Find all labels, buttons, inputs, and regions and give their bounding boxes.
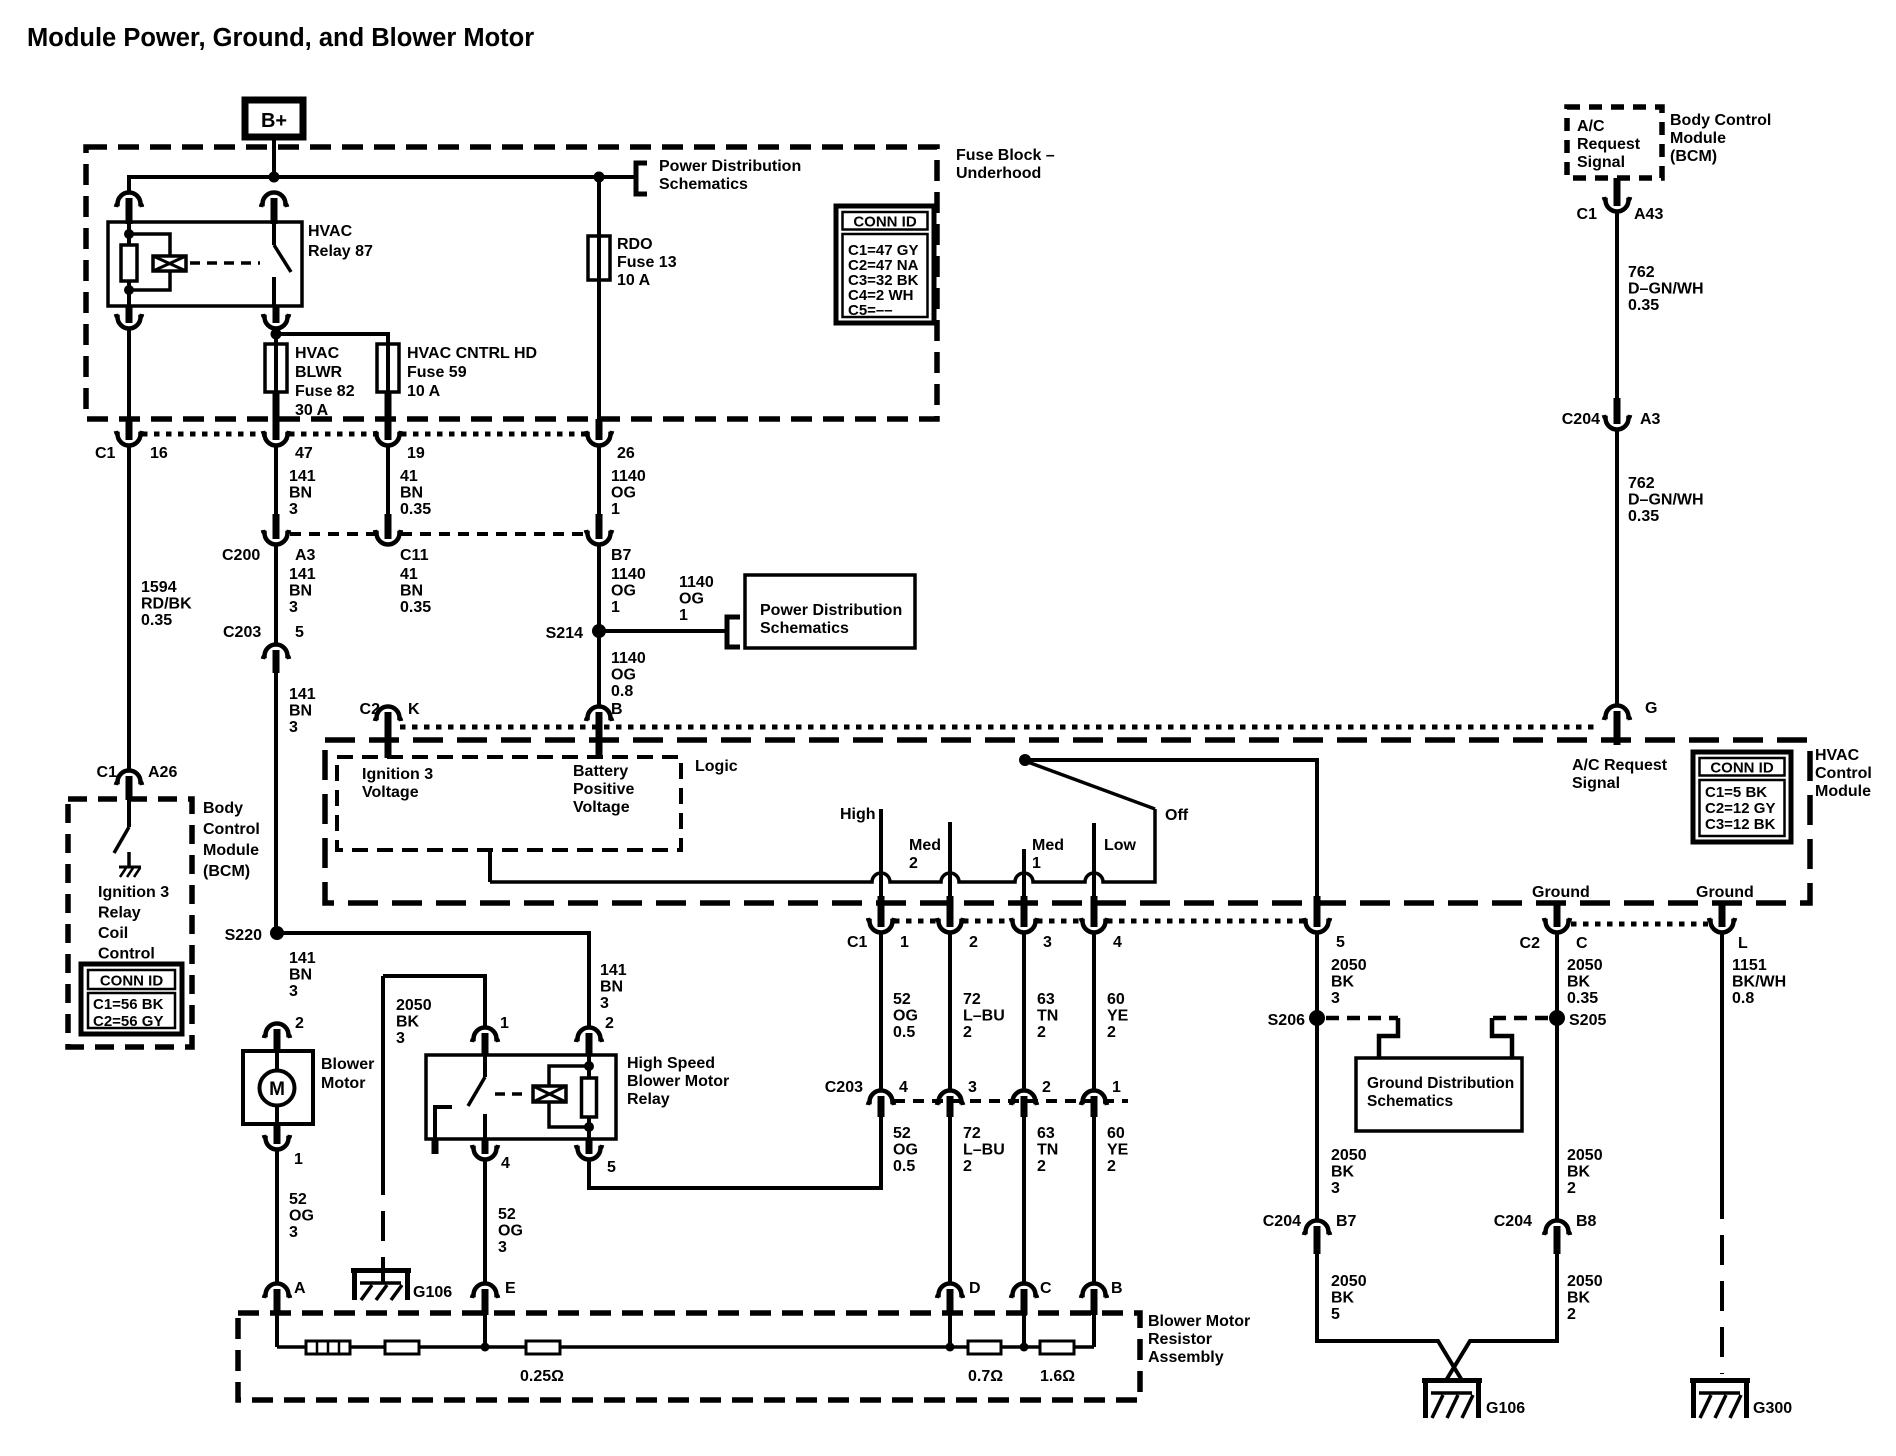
svg-text:C1: C1 xyxy=(95,445,116,462)
svg-text:16: 16 xyxy=(150,445,168,462)
svg-text:60: 60 xyxy=(1107,991,1125,1008)
svg-text:BK: BK xyxy=(1331,974,1355,991)
svg-text:1: 1 xyxy=(294,1151,303,1168)
connector C1 pin 16 xyxy=(273,392,280,440)
svg-text:Signal: Signal xyxy=(1577,154,1625,171)
svg-text:Body Control: Body Control xyxy=(1670,112,1771,129)
svg-text:0.7Ω: 0.7Ω xyxy=(968,1368,1003,1385)
junction C rail xyxy=(1020,1343,1029,1352)
wire A3 to C203 xyxy=(274,545,278,644)
wire power bus xyxy=(127,175,131,193)
svg-text:S220: S220 xyxy=(225,927,262,944)
wire 762 upper xyxy=(1615,212,1619,400)
svg-text:RD/BK: RD/BK xyxy=(141,596,192,613)
svg-text:BN: BN xyxy=(289,583,312,600)
node S220 xyxy=(270,926,284,940)
svg-text:1: 1 xyxy=(500,1015,509,1032)
svg-text:OG: OG xyxy=(679,591,704,608)
svg-text:1: 1 xyxy=(611,599,620,616)
svg-text:2: 2 xyxy=(969,934,978,951)
svg-text:2: 2 xyxy=(1107,1024,1116,1041)
connector C2 K xyxy=(375,707,401,722)
svg-text:C2=12 GY: C2=12 GY xyxy=(1705,800,1775,817)
svg-text:2: 2 xyxy=(909,855,918,872)
svg-text:M: M xyxy=(269,1079,285,1100)
svg-text:Schematics: Schematics xyxy=(760,620,849,637)
connector row ground dotted line xyxy=(1571,922,1708,927)
resistor 1.6 ohm xyxy=(1040,1341,1074,1354)
connector C1 pin 5 xyxy=(1314,896,1321,927)
junction switch wiper xyxy=(1019,754,1031,766)
svg-text:Blower: Blower xyxy=(321,1056,374,1073)
svg-text:Off: Off xyxy=(1165,807,1189,824)
svg-text:BN: BN xyxy=(400,485,423,502)
switch contact low xyxy=(1092,823,1096,898)
wire relay pin1 up-over xyxy=(383,976,485,1027)
svg-text:OG: OG xyxy=(289,1208,314,1225)
svg-text:High Speed: High Speed xyxy=(627,1055,715,1072)
svg-text:141: 141 xyxy=(289,468,316,485)
bcm coil ground mark xyxy=(119,866,141,869)
wire C203-1 to B xyxy=(1092,1117,1096,1284)
blower motor M circle xyxy=(275,1051,279,1071)
relay U-HVAC Relay 87 box xyxy=(108,222,302,306)
svg-text:30 A: 30 A xyxy=(295,402,329,419)
connector row C1 dotted line xyxy=(142,432,263,437)
connector A xyxy=(264,1284,290,1299)
svg-text:5: 5 xyxy=(607,1159,616,1176)
svg-text:41: 41 xyxy=(400,566,418,583)
svg-text:0.35: 0.35 xyxy=(1628,508,1659,525)
svg-text:CONN ID: CONN ID xyxy=(853,214,917,231)
svg-text:C200: C200 xyxy=(222,547,260,564)
connector L xyxy=(1719,903,1726,927)
connector C1 pin 3 xyxy=(1021,896,1028,927)
svg-text:3: 3 xyxy=(289,983,298,1000)
svg-text:C1: C1 xyxy=(847,934,868,951)
svg-text:1140: 1140 xyxy=(611,650,646,667)
svg-text:OG: OG xyxy=(611,485,636,502)
B+ battery feed box xyxy=(245,100,303,137)
ground distribution schematics box xyxy=(1356,1058,1522,1131)
svg-text:TN: TN xyxy=(1037,1142,1058,1159)
svg-text:Fuse 13: Fuse 13 xyxy=(617,254,677,271)
svg-text:C204: C204 xyxy=(1263,1213,1301,1230)
svg-text:RDO: RDO xyxy=(617,236,653,253)
connector hs relay pin 5 xyxy=(586,1139,593,1154)
svg-text:Blower Motor: Blower Motor xyxy=(627,1073,729,1090)
svg-text:G300: G300 xyxy=(1753,1400,1792,1417)
bracket to power distribution schematics xyxy=(636,163,647,194)
connector B blower resistor xyxy=(1081,1284,1107,1299)
svg-text:L: L xyxy=(1738,935,1748,952)
wire C203-4 to relay pin 5 xyxy=(589,1117,881,1188)
svg-text:141: 141 xyxy=(600,962,627,979)
svg-text:YE: YE xyxy=(1107,1142,1129,1159)
resistor rail xyxy=(275,1315,279,1347)
svg-text:2: 2 xyxy=(295,1015,304,1032)
svg-text:141: 141 xyxy=(289,950,316,967)
connector blower motor pin 1 xyxy=(274,1124,281,1144)
connector C11 xyxy=(375,530,401,545)
svg-text:141: 141 xyxy=(289,566,316,583)
connector C1 pin 4 xyxy=(1091,896,1098,927)
connector D xyxy=(937,1284,963,1299)
svg-text:Control: Control xyxy=(1815,765,1872,782)
ground G300 xyxy=(1690,1378,1750,1383)
svg-text:C204: C204 xyxy=(1562,411,1600,428)
switch contact med 1 xyxy=(1022,849,1026,898)
wire C1-2 to C203-3 xyxy=(948,933,952,1091)
svg-text:Assembly: Assembly xyxy=(1148,1349,1224,1366)
svg-text:C1: C1 xyxy=(97,764,118,781)
svg-text:2: 2 xyxy=(1107,1158,1116,1175)
wire 16 down-left xyxy=(127,446,131,770)
svg-text:3: 3 xyxy=(1331,1180,1340,1197)
svg-text:1140: 1140 xyxy=(611,566,646,583)
svg-text:Body: Body xyxy=(203,800,243,817)
connector C203 pin 4 xyxy=(868,1091,894,1106)
ground G106 main xyxy=(1422,1378,1482,1383)
svg-text:762: 762 xyxy=(1628,475,1655,492)
svg-text:3: 3 xyxy=(289,599,298,616)
svg-text:C1=5 BK: C1=5 BK xyxy=(1705,784,1767,801)
svg-text:2: 2 xyxy=(1037,1024,1046,1041)
svg-text:63: 63 xyxy=(1037,991,1055,1008)
svg-text:D–GN/WH: D–GN/WH xyxy=(1628,492,1704,509)
svg-text:Battery: Battery xyxy=(573,763,628,780)
svg-text:Schematics: Schematics xyxy=(659,176,748,193)
svg-text:3: 3 xyxy=(600,995,609,1012)
high speed blower motor relay box xyxy=(426,1055,616,1139)
svg-text:Module: Module xyxy=(1670,130,1726,147)
svg-text:B+: B+ xyxy=(261,110,287,132)
wire relay pin4 to E xyxy=(483,1160,487,1284)
switch common wire with skip-overs xyxy=(490,809,1155,882)
hs relay coil loop xyxy=(587,1055,591,1066)
svg-text:2: 2 xyxy=(1042,1079,1051,1096)
svg-text:1140: 1140 xyxy=(679,574,714,591)
svg-text:YE: YE xyxy=(1107,1008,1129,1025)
svg-text:C1=56 BK: C1=56 BK xyxy=(93,996,164,1013)
connector C1 A43 xyxy=(1614,178,1621,206)
svg-text:Ground: Ground xyxy=(1532,884,1590,901)
svg-text:0.5: 0.5 xyxy=(893,1158,915,1175)
svg-text:52: 52 xyxy=(893,1125,911,1142)
svg-text:(BCM): (BCM) xyxy=(1670,148,1717,165)
connector C204 A3 xyxy=(1614,398,1621,424)
svg-text:A/C: A/C xyxy=(1577,118,1605,135)
svg-text:Module: Module xyxy=(1815,783,1871,800)
svg-text:1151: 1151 xyxy=(1732,957,1767,974)
svg-text:0.25Ω: 0.25Ω xyxy=(520,1368,564,1385)
svg-text:5: 5 xyxy=(1336,934,1345,951)
svg-text:K: K xyxy=(408,701,420,718)
svg-text:0.35: 0.35 xyxy=(400,501,431,518)
relay 87 pin bottom-left connector xyxy=(126,306,133,323)
svg-text:BN: BN xyxy=(289,485,312,502)
wire S205 to ground distribution xyxy=(1492,1016,1548,1021)
connector hs relay pin 2 xyxy=(576,1028,602,1043)
wire S220 to relay pin 2 xyxy=(277,933,589,1027)
wire blower to A xyxy=(275,1150,279,1284)
svg-text:Motor: Motor xyxy=(321,1075,365,1092)
svg-text:OG: OG xyxy=(611,583,636,600)
svg-text:2050: 2050 xyxy=(1331,1147,1367,1164)
svg-text:52: 52 xyxy=(289,1191,307,1208)
svg-text:C2: C2 xyxy=(360,701,381,718)
wire to fuse 59 xyxy=(281,334,388,344)
blower motor box xyxy=(243,1051,313,1124)
svg-text:High: High xyxy=(840,806,876,823)
svg-text:OG: OG xyxy=(893,1142,918,1159)
svg-text:60: 60 xyxy=(1107,1125,1125,1142)
svg-text:A3: A3 xyxy=(1640,411,1661,428)
relay 87 actuation dashed link xyxy=(190,261,260,265)
fuse HVAC CNTRL HD Fuse 59 xyxy=(377,344,399,392)
svg-text:3: 3 xyxy=(968,1079,977,1096)
svg-text:4: 4 xyxy=(501,1155,510,1172)
switch contact med 2 xyxy=(948,822,952,898)
svg-text:CONN ID: CONN ID xyxy=(1710,760,1774,777)
svg-text:10 A: 10 A xyxy=(617,272,651,289)
svg-text:TN: TN xyxy=(1037,1008,1058,1025)
connector C203 pin 3 xyxy=(937,1091,963,1106)
svg-text:HVAC CNTRL HD: HVAC CNTRL HD xyxy=(407,345,537,362)
svg-text:E: E xyxy=(505,1280,516,1297)
svg-text:5: 5 xyxy=(295,624,304,641)
svg-text:26: 26 xyxy=(617,445,635,462)
svg-text:C204: C204 xyxy=(1494,1213,1532,1230)
svg-text:Blower Motor: Blower Motor xyxy=(1148,1313,1250,1330)
junction fuse split xyxy=(271,329,282,340)
conn id table bcm xyxy=(81,964,182,1034)
svg-text:Ignition 3: Ignition 3 xyxy=(98,884,169,901)
connector row C203 dashed line xyxy=(894,1099,1128,1103)
svg-text:3: 3 xyxy=(396,1030,405,1047)
bracket to power distribution schematics box xyxy=(727,617,740,647)
svg-text:C2: C2 xyxy=(1520,935,1541,952)
svg-text:HVAC: HVAC xyxy=(308,223,353,240)
svg-text:0.35: 0.35 xyxy=(141,612,172,629)
svg-text:D–GN/WH: D–GN/WH xyxy=(1628,281,1704,298)
wire 26 to B7 xyxy=(597,446,601,516)
svg-text:0.8: 0.8 xyxy=(611,683,633,700)
wire relay87 coil output 16 xyxy=(127,328,131,421)
svg-text:L–BU: L–BU xyxy=(963,1142,1005,1159)
svg-text:Signal: Signal xyxy=(1572,775,1620,792)
svg-text:2050: 2050 xyxy=(1331,957,1367,974)
svg-text:C203: C203 xyxy=(223,624,261,641)
bcm ignition switch xyxy=(127,800,131,827)
connector C203 pin 5 xyxy=(263,645,289,660)
svg-text:G106: G106 xyxy=(413,1284,452,1301)
connector row C200 dashed line xyxy=(290,532,375,536)
connector C1 A26 xyxy=(116,771,142,786)
svg-text:47: 47 xyxy=(295,445,313,462)
svg-text:2050: 2050 xyxy=(1567,1147,1603,1164)
HVAC relay 87 pin top-left connector xyxy=(116,193,142,208)
svg-text:1: 1 xyxy=(1032,855,1041,872)
svg-text:19: 19 xyxy=(407,445,425,462)
connector C200 A3 xyxy=(263,530,289,545)
wire C203-3 to D xyxy=(948,1117,952,1284)
svg-text:1: 1 xyxy=(611,501,620,518)
svg-text:BK: BK xyxy=(1331,1164,1355,1181)
svg-text:41: 41 xyxy=(400,468,418,485)
svg-text:2: 2 xyxy=(1567,1180,1576,1197)
svg-text:BK: BK xyxy=(1567,1290,1591,1307)
svg-text:52: 52 xyxy=(498,1206,516,1223)
wire B7 to S214 xyxy=(597,545,601,631)
svg-text:S206: S206 xyxy=(1268,1012,1305,1029)
svg-text:(BCM): (BCM) xyxy=(203,863,250,880)
svg-text:2: 2 xyxy=(605,1015,614,1032)
HVAC relay 87 pin top-right connector xyxy=(261,193,287,208)
switch wiper to off xyxy=(1025,761,1155,809)
svg-text:4: 4 xyxy=(899,1079,908,1096)
svg-text:72: 72 xyxy=(963,991,981,1008)
svg-text:BN: BN xyxy=(289,967,312,984)
svg-text:A3: A3 xyxy=(295,547,316,564)
body control module dashed box xyxy=(68,799,192,1047)
connector C xyxy=(1011,1284,1037,1299)
svg-text:B: B xyxy=(1111,1280,1123,1297)
svg-text:CONN ID: CONN ID xyxy=(100,973,164,990)
resistor 0.25 ohm xyxy=(526,1341,560,1354)
wire 19 to C11 xyxy=(386,446,390,516)
svg-text:Voltage: Voltage xyxy=(362,784,419,801)
wire logic output xyxy=(488,850,492,882)
wire C1-4 to C203-1 xyxy=(1092,933,1096,1091)
svg-text:C203: C203 xyxy=(825,1079,863,1096)
svg-text:2050: 2050 xyxy=(1331,1273,1367,1290)
svg-text:Positive: Positive xyxy=(573,781,634,798)
svg-text:C1: C1 xyxy=(1577,206,1598,223)
svg-text:L–BU: L–BU xyxy=(963,1008,1005,1025)
svg-text:OG: OG xyxy=(611,667,636,684)
svg-text:D: D xyxy=(969,1280,981,1297)
wire ground C to S205 xyxy=(1555,933,1559,1221)
connector C204 B7 xyxy=(1304,1221,1330,1236)
svg-text:1.6Ω: 1.6Ω xyxy=(1040,1368,1075,1385)
power distribution schematics reference box xyxy=(745,575,915,648)
connector C1 pin 1 xyxy=(878,896,885,927)
relay 87 coil loop wire xyxy=(129,234,170,256)
svg-text:Fuse 82: Fuse 82 xyxy=(295,383,355,400)
svg-text:52: 52 xyxy=(893,991,911,1008)
wire wiper to pin 5 xyxy=(1025,760,1317,898)
resistor element 2 xyxy=(385,1341,419,1354)
svg-text:3: 3 xyxy=(1043,934,1052,951)
svg-text:0.35: 0.35 xyxy=(1628,297,1659,314)
svg-text:Fuse Block –: Fuse Block – xyxy=(956,147,1055,164)
conn id table fuse block xyxy=(836,206,934,323)
svg-text:3: 3 xyxy=(289,719,298,736)
wire C203-2 to C xyxy=(1022,1117,1026,1284)
svg-text:OG: OG xyxy=(498,1223,523,1240)
wire B8 to G106 xyxy=(1445,1254,1557,1382)
svg-text:A: A xyxy=(294,1280,306,1297)
svg-text:BK: BK xyxy=(1567,974,1591,991)
svg-text:0.8: 0.8 xyxy=(1732,990,1754,1007)
connector G hvac module xyxy=(1604,706,1630,721)
svg-text:Med: Med xyxy=(1032,837,1064,854)
svg-text:Power Distribution: Power Distribution xyxy=(760,602,902,619)
svg-text:10 A: 10 A xyxy=(407,383,441,400)
svg-text:2: 2 xyxy=(963,1024,972,1041)
svg-text:72: 72 xyxy=(963,1125,981,1142)
fuse RDO Fuse 13 xyxy=(597,177,601,236)
svg-text:C11: C11 xyxy=(400,547,429,564)
wire S206 to ground distribution xyxy=(1326,1016,1398,1021)
connector C203 pin 1 xyxy=(1081,1091,1107,1106)
svg-text:HVAC: HVAC xyxy=(295,345,340,362)
svg-text:2050: 2050 xyxy=(1567,1273,1603,1290)
svg-text:Module Power, Ground, and Blow: Module Power, Ground, and Blower Motor xyxy=(27,24,534,52)
svg-text:1: 1 xyxy=(900,934,909,951)
svg-text:G106: G106 xyxy=(1486,1400,1525,1417)
wire B7 to G106 xyxy=(1317,1254,1463,1382)
svg-text:Relay 87: Relay 87 xyxy=(308,243,373,260)
svg-text:1: 1 xyxy=(679,607,688,624)
wire 762 lower xyxy=(1615,430,1619,706)
wire S214 branch 1140 OG 1 xyxy=(599,629,727,633)
svg-text:2: 2 xyxy=(963,1158,972,1175)
svg-text:Fuse 59: Fuse 59 xyxy=(407,364,467,381)
connector row C1 hvac dotted line xyxy=(894,919,937,924)
svg-text:BN: BN xyxy=(400,583,423,600)
wire C1-1 to C203-4 xyxy=(879,933,883,1091)
svg-text:HVAC: HVAC xyxy=(1815,747,1860,764)
svg-text:C2=56 GY: C2=56 GY xyxy=(93,1013,163,1030)
connector B battery positive input xyxy=(586,707,612,722)
svg-text:3: 3 xyxy=(1331,990,1340,1007)
svg-text:OG: OG xyxy=(893,1008,918,1025)
svg-text:Ground: Ground xyxy=(1696,884,1754,901)
connector C204 B8 xyxy=(1544,1221,1570,1236)
node S205 xyxy=(1549,1010,1565,1026)
svg-text:BK/WH: BK/WH xyxy=(1732,974,1786,991)
svg-text:63: 63 xyxy=(1037,1125,1055,1142)
svg-text:BK: BK xyxy=(396,1014,420,1031)
svg-text:BN: BN xyxy=(600,979,623,996)
relay 87 switch xyxy=(272,222,276,245)
connector hs relay pin 1 xyxy=(472,1028,498,1043)
wire C1-3 to C203-2 xyxy=(1022,933,1026,1091)
wire RDO fuse output 26 xyxy=(597,280,601,421)
svg-text:3: 3 xyxy=(498,1239,507,1256)
svg-text:141: 141 xyxy=(289,686,316,703)
svg-text:Power Distribution: Power Distribution xyxy=(659,158,801,175)
svg-text:S214: S214 xyxy=(546,625,583,642)
svg-text:C3=12 BK: C3=12 BK xyxy=(1705,816,1776,833)
svg-text:A/C Request: A/C Request xyxy=(1572,757,1668,774)
svg-text:2: 2 xyxy=(1567,1306,1576,1323)
hs relay coil X-box xyxy=(533,1086,566,1102)
svg-text:1594: 1594 xyxy=(141,579,177,596)
svg-text:Relay: Relay xyxy=(98,905,141,922)
svg-text:762: 762 xyxy=(1628,264,1655,281)
svg-text:1: 1 xyxy=(1112,1079,1121,1096)
svg-text:G: G xyxy=(1645,700,1657,717)
wire pin5 to S206 xyxy=(1315,933,1319,1221)
svg-text:B7: B7 xyxy=(611,547,632,564)
svg-text:A43: A43 xyxy=(1634,206,1663,223)
resistor 0.7 ohm xyxy=(968,1341,1001,1354)
wire B+ stem xyxy=(272,137,276,176)
svg-text:3: 3 xyxy=(289,501,298,518)
